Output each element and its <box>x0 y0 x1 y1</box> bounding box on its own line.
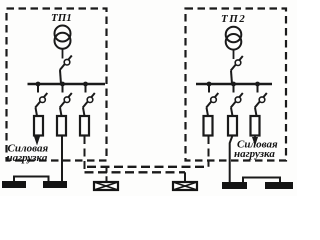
wire below FU1 with arrow <box>36 136 38 142</box>
load busbar 1 <box>2 181 26 188</box>
wire T1 to feed switch <box>62 48 64 58</box>
svg-text:ТП2: ТП2 <box>221 13 246 25</box>
svg-text:нагрузка: нагрузка <box>7 152 48 164</box>
busbar TP2 <box>196 83 272 85</box>
load feeder bracket left <box>14 177 49 182</box>
feed breaker QF1 <box>60 56 72 85</box>
branch breaker QF7 (right branch 2) <box>231 84 243 116</box>
branch breaker QF2 (left branch 1) <box>35 84 47 116</box>
switch box 1 (crossed box) <box>94 182 118 190</box>
fuse FU3 <box>80 116 89 136</box>
riser to switch box 1 (dashed) <box>106 167 108 177</box>
node dots busbar TP2 <box>207 82 260 87</box>
branch breaker QF6 (right branch 1, reserve) <box>206 84 218 116</box>
switch box 2 (crossed box) <box>173 182 197 190</box>
arrow to load label right <box>252 137 258 146</box>
load feeder bracket right <box>243 178 280 183</box>
wire FU2 to load bar 2 <box>61 136 63 183</box>
arrow to load label left <box>34 137 40 146</box>
branch breaker QF3 (left branch 2) <box>60 84 72 116</box>
feed breaker QF5 <box>231 56 243 84</box>
reserve jumper wire TP2-branch1 to switch box 1 (dashed, upper) <box>87 166 209 168</box>
node dots busbar TP1 <box>36 82 88 87</box>
fuse FU6 <box>251 116 260 136</box>
wire FU5 to load bar 3 <box>230 136 233 184</box>
load busbar 2 <box>43 181 67 188</box>
load busbar 4 <box>265 182 293 189</box>
reserve wire down from FU4 (dashed) <box>208 136 210 167</box>
fuse FU1 <box>34 116 43 136</box>
fuse FU2 <box>57 116 66 136</box>
dashed enclosure box TP2 <box>186 9 287 161</box>
fuse FU4 <box>204 116 213 136</box>
dashed enclosure box TP1 <box>7 9 107 161</box>
load busbar 3 <box>222 182 247 189</box>
svg-text:ТП1: ТП1 <box>51 12 72 24</box>
fuse FU5 <box>228 116 237 136</box>
busbar TP1 <box>28 83 106 85</box>
transformer T1 <box>55 26 71 49</box>
reserve jumper wire TP1-branch3 to switch box 2 (dashed, lower) <box>85 171 186 173</box>
reserve wire down from FU3 (dashed) <box>84 136 86 172</box>
wire below FU6 with arrow <box>254 136 256 142</box>
svg-text:нагрузка: нагрузка <box>234 148 275 160</box>
riser to switch box 2 (dashed) <box>184 172 186 176</box>
wire T2 to feed switch <box>233 50 235 59</box>
branch breaker QF8 (right branch 3) <box>255 84 267 116</box>
transformer T2 <box>226 27 242 50</box>
branch breaker QF4 (left branch 3, reserve) <box>83 84 95 116</box>
